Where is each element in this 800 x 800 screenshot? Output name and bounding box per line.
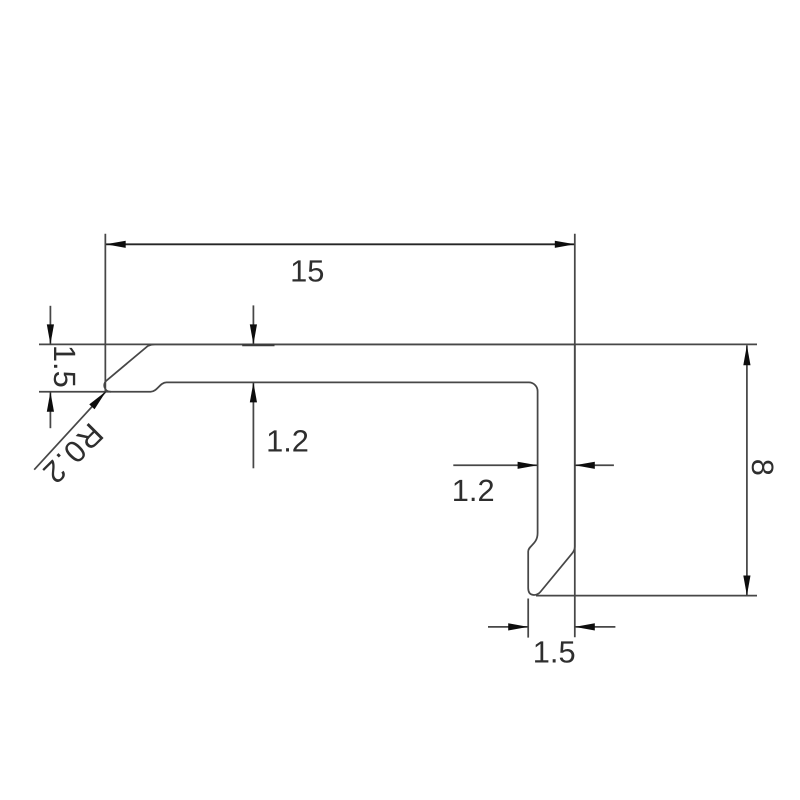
svg-text:1.5: 1.5 [533,635,576,670]
svg-text:1.2: 1.2 [452,473,495,508]
svg-text:1.5: 1.5 [47,345,82,388]
svg-text:8: 8 [745,459,780,476]
svg-text:1.2: 1.2 [266,424,309,459]
svg-text:15: 15 [290,253,324,288]
